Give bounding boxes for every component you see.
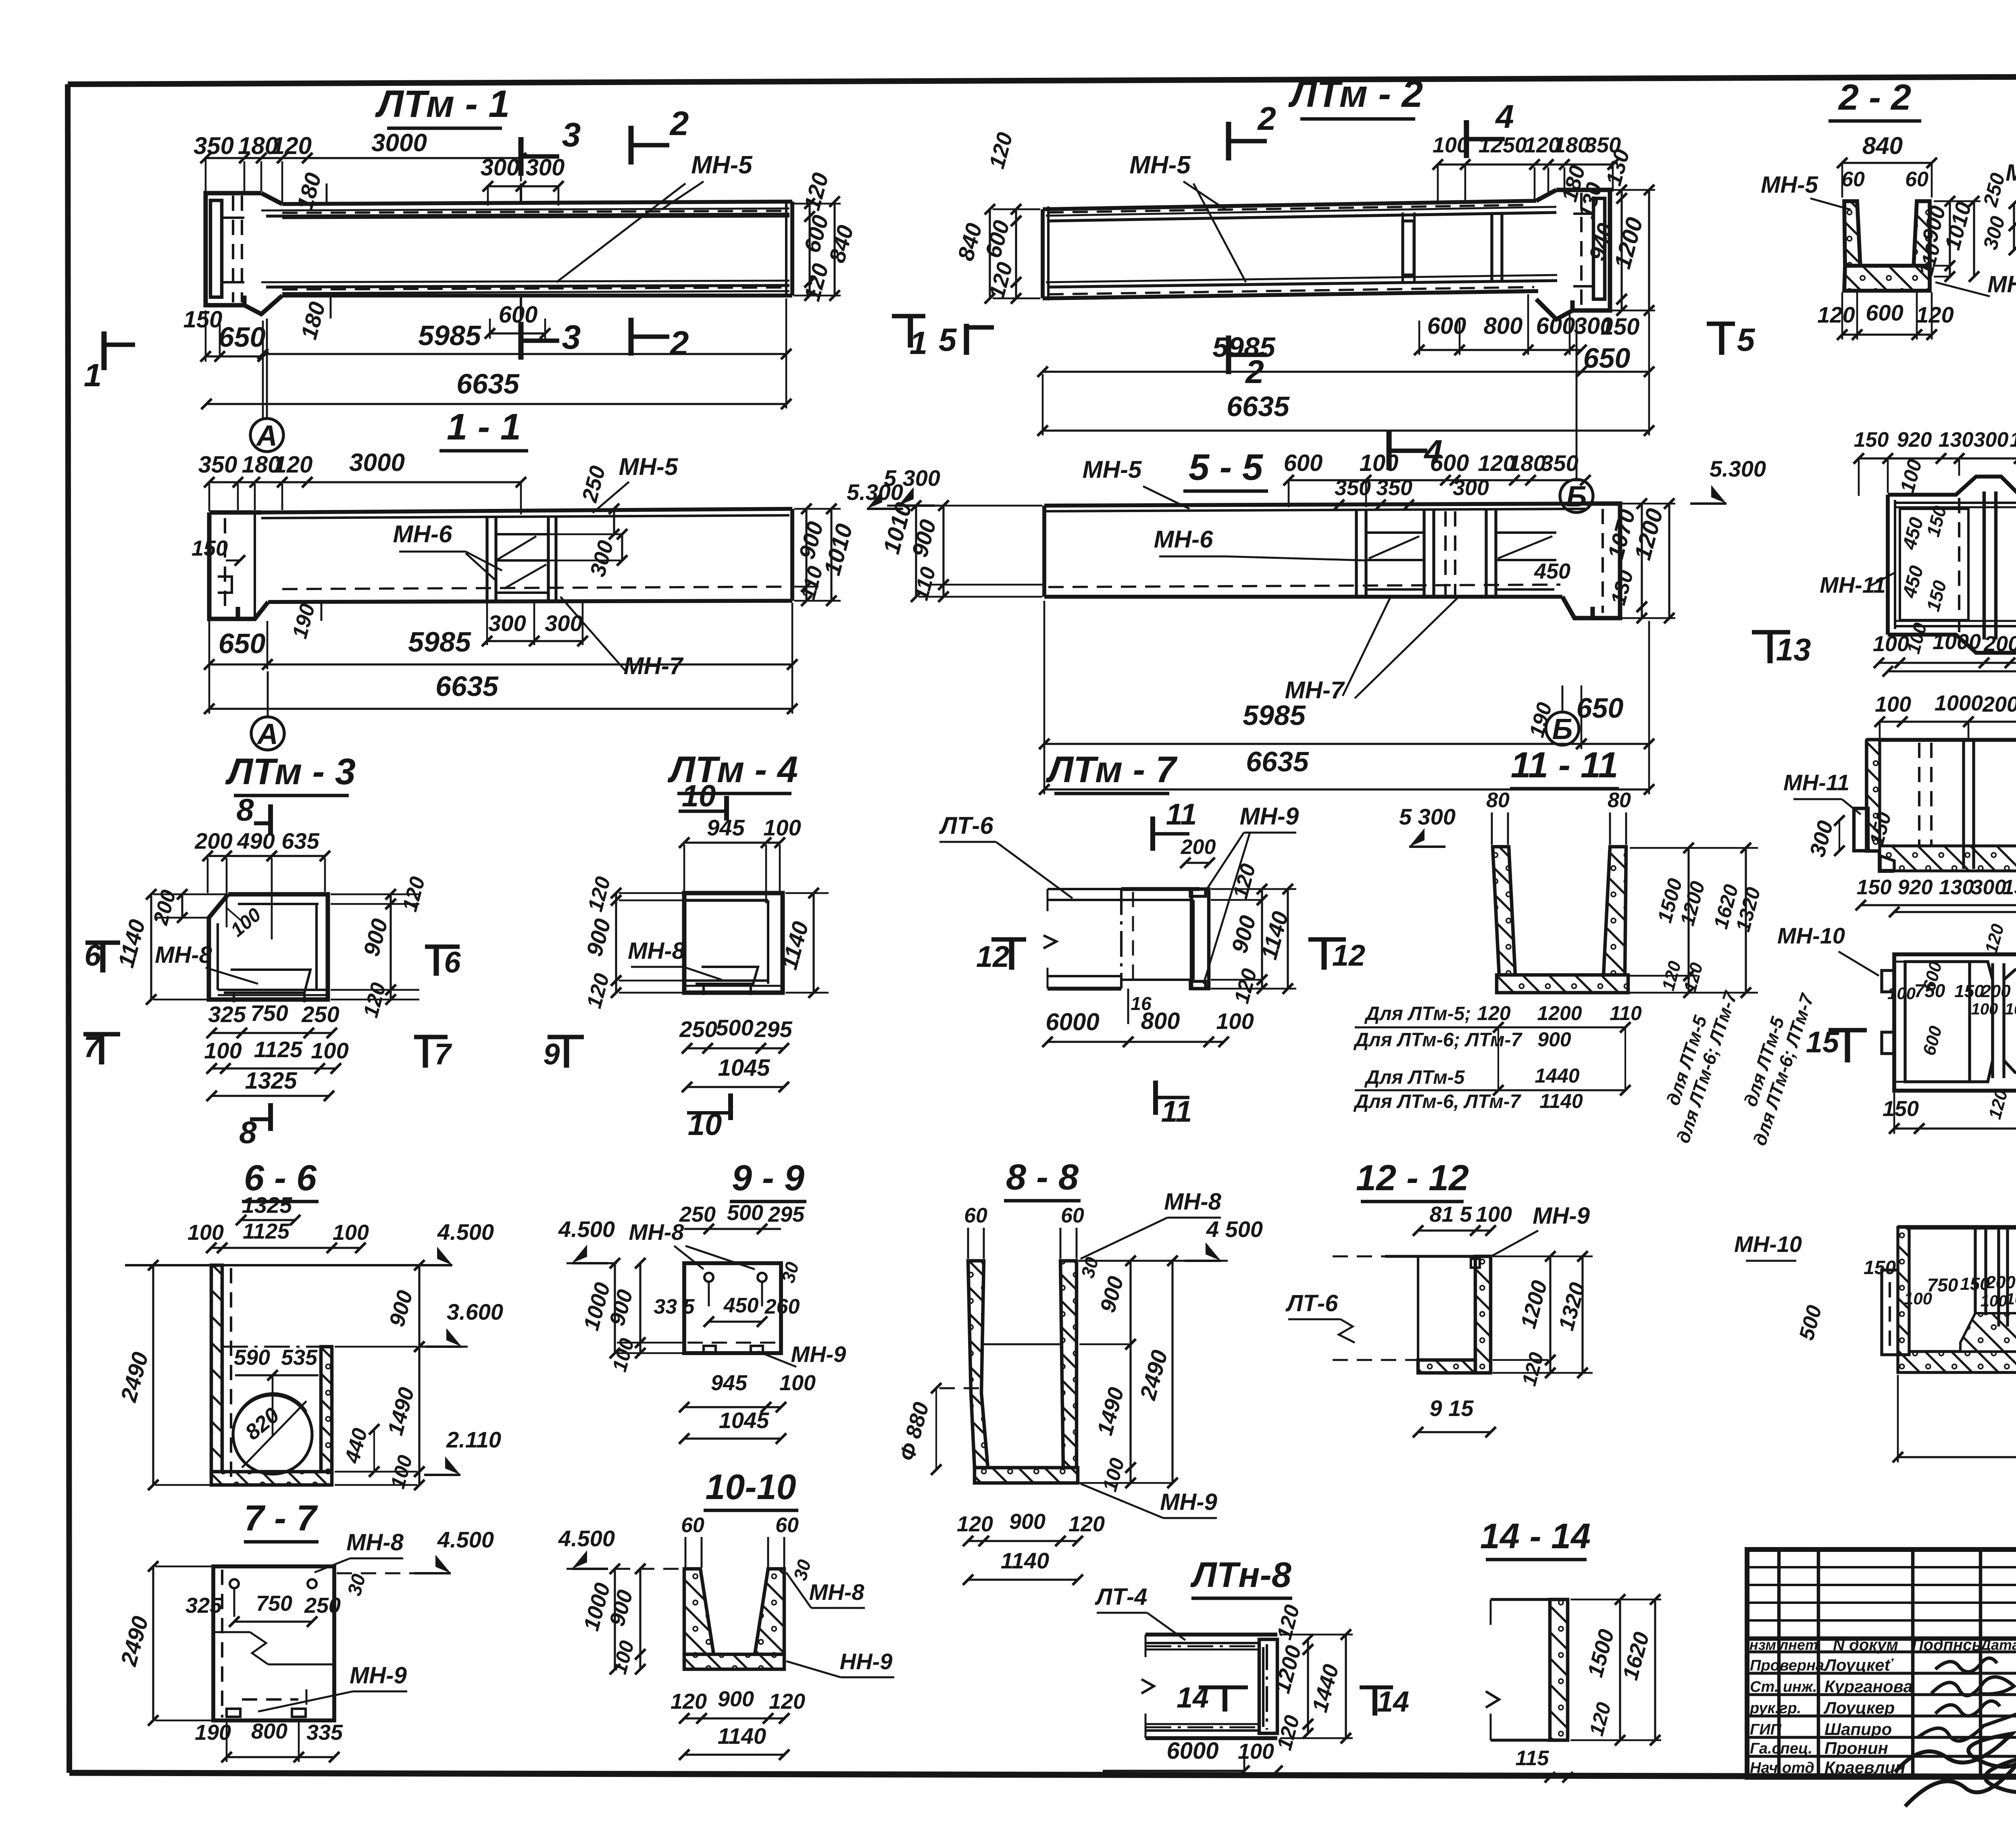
1-1 dim 150 inside (192, 536, 245, 566)
section mark 4 (LTm-2 top) (1466, 98, 1514, 158)
svg-text:300: 300 (1971, 876, 2006, 899)
9-9 body (684, 1263, 781, 1353)
svg-text:А: А (256, 718, 278, 750)
LTm-8 right dims 120 1200 120 1440 (1270, 1602, 1353, 1753)
LTm-1 label 180 rotated (292, 170, 327, 213)
11-11 variants table (1353, 1002, 1642, 1112)
svg-text:100: 100 (1360, 450, 1399, 476)
svg-text:МН-7: МН-7 (1987, 271, 2016, 298)
section 11-11 title (1510, 745, 1619, 789)
svg-text:130: 130 (2003, 876, 2016, 899)
svg-text:2: 2 (1257, 100, 1276, 137)
5-5 dim 190 rotated (1525, 700, 1556, 740)
axis circle B (5-5) (1546, 685, 1579, 746)
14-14 right dims 1500 1620 120 (1570, 1594, 1661, 1745)
6-6 dims 100 1125 100 (187, 1219, 369, 1253)
svg-text:1325: 1325 (242, 1192, 292, 1218)
LTm-5 internal dims (1887, 922, 2016, 1121)
svg-text:200: 200 (1981, 981, 2011, 1001)
svg-text:100: 100 (1433, 133, 1469, 157)
svg-text:350: 350 (1335, 476, 1371, 500)
LTm-2 top dims 100 1250 120 180 350 (1433, 133, 1621, 204)
svg-text:Для ЛТм-6, ЛТм-7: Для ЛТм-6, ЛТм-7 (1353, 1091, 1522, 1112)
svg-text:120: 120 (271, 132, 312, 159)
svg-text:5985: 5985 (1243, 700, 1306, 731)
svg-text:750: 750 (256, 1591, 292, 1616)
LTm-3 cut mark 8 bottom (239, 1103, 271, 1150)
LTm-5 body (plan) (1882, 954, 2016, 1091)
label LT-6 (LTm-7) (939, 812, 1073, 898)
svg-text:Проверна: Проверна (1750, 1657, 1824, 1674)
svg-text:6: 6 (84, 939, 101, 972)
svg-text:600: 600 (1866, 300, 1903, 325)
LTm-1 dim 150 (183, 306, 225, 362)
svg-text:5 300: 5 300 (1399, 804, 1456, 829)
LTm-1 dim 6635 (201, 368, 791, 409)
svg-text:15: 15 (1806, 1025, 1840, 1059)
svg-text:750: 750 (250, 1000, 288, 1026)
svg-text:1125: 1125 (243, 1219, 290, 1243)
svg-text:100: 100 (2006, 1290, 2016, 1308)
5-5 dims 350 350 300 (1334, 476, 1489, 510)
svg-text:2: 2 (669, 324, 689, 362)
svg-text:60: 60 (1061, 1204, 1084, 1227)
svg-text:А: А (256, 420, 277, 452)
svg-text:60: 60 (1905, 168, 1929, 191)
svg-text:295: 295 (768, 1202, 805, 1227)
6-6 body (211, 1265, 332, 1485)
svg-text:5: 5 (939, 322, 957, 358)
LTm-3 right dims 120 900 120 (331, 874, 430, 1020)
svg-text:2: 2 (669, 104, 689, 142)
5-5 level 5.300 left (884, 465, 940, 506)
svg-text:200: 200 (1982, 692, 2016, 716)
10-10 left dims 1000 900 100 (579, 1564, 646, 1676)
svg-text:100: 100 (1216, 1008, 1254, 1034)
svg-text:Ст. инж.: Ст. инж. (1750, 1678, 1817, 1695)
svg-text:МН-8: МН-8 (346, 1529, 404, 1556)
svg-text:ЛТ-6: ЛТ-6 (939, 812, 993, 839)
svg-text:600: 600 (499, 302, 538, 328)
svg-text:МН-7: МН-7 (624, 652, 684, 679)
11-11 rotated captions (1662, 988, 1818, 1148)
svg-text:1045: 1045 (719, 1408, 769, 1433)
title block outer (1747, 1549, 2016, 1777)
svg-text:300: 300 (1974, 428, 2009, 452)
svg-text:3: 3 (562, 318, 581, 356)
section mark 5 right (1707, 322, 1756, 358)
6-6 level 2.110 (424, 1427, 501, 1475)
svg-text:635: 635 (281, 828, 319, 854)
13-13 bottom dims 150 920 130 300 130 (1856, 876, 2016, 910)
svg-text:НН-9: НН-9 (840, 1649, 893, 1674)
LTm-3 bottom dims 325 750 250 (206, 1000, 339, 1038)
svg-text:60: 60 (681, 1514, 704, 1537)
svg-text:ЛТм - 7: ЛТм - 7 (1045, 749, 1178, 790)
svg-text:100: 100 (763, 815, 801, 840)
title block left table (1747, 1549, 2016, 1777)
svg-text:945: 945 (707, 815, 745, 840)
LTm-4 right dim 1140 (776, 888, 829, 998)
10-10 dims 60 60 (681, 1514, 799, 1568)
view LTm-2 title (1288, 73, 1423, 119)
svg-text:МН-8: МН-8 (1164, 1189, 1222, 1215)
LTm-2 right dims 130 940 1200 (1574, 180, 1655, 316)
svg-text:Лоуцкеť: Лоуцкеť (1823, 1656, 1894, 1674)
LTm-3 body (209, 894, 328, 1002)
svg-text:80: 80 (1486, 789, 1510, 812)
5-5 right dims 1070 1200 130 450 (1534, 498, 1675, 623)
svg-text:9 - 9: 9 - 9 (732, 1158, 804, 1198)
LTm-2 bottom dims 600 800 600 300 150 (1414, 294, 1639, 355)
svg-text:4: 4 (1495, 98, 1514, 135)
7-7 left dim 2490 (115, 1561, 212, 1726)
1-1 dim 6635 (204, 669, 798, 714)
svg-text:5: 5 (1737, 322, 1756, 358)
6-6 right dims 900 1490 100 (335, 1260, 425, 1491)
svg-text:100: 100 (1476, 1202, 1512, 1227)
label MN-11 (13-13) (1783, 770, 1861, 814)
LTm-3 top dims 200 490 635 (194, 828, 330, 939)
LTm-1 left end block (206, 193, 282, 314)
svg-text:945: 945 (711, 1371, 748, 1395)
svg-text:7: 7 (83, 1030, 102, 1064)
8-8 bottom dims 120 900 120 (957, 1510, 1105, 1546)
svg-text:Га.спец.: Га.спец. (1750, 1740, 1812, 1757)
svg-text:130: 130 (1939, 428, 1974, 452)
svg-text:2 - 2: 2 - 2 (1838, 77, 1911, 118)
6-6 ground line 4.500 (125, 1219, 494, 1265)
svg-text:Краевлин: Краевлин (1824, 1758, 1906, 1777)
svg-text:6635: 6635 (1227, 391, 1290, 422)
LTm-7 right dims 120 900 120 1140 (1211, 861, 1296, 1006)
10-10 dim 30 (789, 1557, 815, 1583)
3-3 left embed dims 250 300 (1979, 171, 2016, 255)
LTm-3 left dims 200 1140 (113, 887, 226, 1005)
svg-text:2: 2 (1245, 354, 1264, 390)
svg-text:60: 60 (775, 1514, 799, 1537)
svg-text:МН-9: МН-9 (1160, 1489, 1217, 1515)
7-7 body (213, 1566, 334, 1720)
svg-text:130: 130 (2010, 428, 2016, 452)
LTm-6 rotated dims 100 130 (1896, 453, 2016, 495)
title block signatures scribbles (1895, 1658, 2016, 1806)
7-7 level 4.500 (337, 1527, 494, 1573)
8-8 level 4 500 (1079, 1216, 1263, 1261)
svg-text:4.500: 4.500 (437, 1219, 494, 1245)
LTm-1 label 180 bottom rotated (296, 296, 331, 342)
svg-text:450: 450 (723, 1294, 759, 1317)
svg-text:295: 295 (754, 1016, 792, 1042)
svg-text:3000: 3000 (349, 449, 405, 477)
svg-text:200: 200 (1983, 632, 2016, 656)
svg-text:100: 100 (1875, 692, 1911, 716)
section mark 5 left (939, 322, 994, 358)
11-11 dims 80 80 (1486, 789, 1631, 845)
section 6-6 title (242, 1158, 319, 1202)
svg-text:Дата: Дата (1979, 1637, 2016, 1653)
view LTm-1 title (375, 83, 510, 128)
svg-text:650: 650 (1577, 692, 1624, 724)
svg-text:5985: 5985 (408, 626, 471, 658)
svg-text:500: 500 (716, 1015, 753, 1040)
section mark 2 (LTm-2 top) (1229, 100, 1276, 160)
LTm-5 dim 150 (1883, 1097, 1924, 1134)
svg-text:100: 100 (2005, 1000, 2016, 1018)
svg-text:200: 200 (1985, 1272, 2016, 1292)
svg-text:МН-5: МН-5 (619, 453, 679, 480)
view LTm-4 title (667, 749, 798, 793)
8-8 bottom dim 1140 (963, 1548, 1083, 1585)
svg-text:Подпнсь: Подпнсь (1912, 1636, 1982, 1654)
section 12-12 title (1356, 1158, 1469, 1202)
svg-text:11 - 11: 11 - 11 (1511, 745, 1618, 785)
svg-text:МН-11: МН-11 (1820, 572, 1886, 598)
LTm-1 top dimension 350 180 120 (194, 132, 312, 202)
svg-text:100: 100 (204, 1038, 242, 1063)
LTm-4 body (684, 893, 783, 995)
svg-text:МН-5: МН-5 (1083, 456, 1142, 483)
svg-text:1250: 1250 (1479, 133, 1527, 157)
11-11 level 5 300 (1399, 804, 1456, 847)
svg-text:6635: 6635 (435, 671, 499, 702)
svg-text:МН-8: МН-8 (628, 938, 685, 964)
LTm-2 dim 650 (1576, 312, 1654, 435)
svg-text:3.600: 3.600 (447, 1299, 503, 1324)
label MN-5 (1-1) (593, 453, 679, 513)
LTm-5 dim 5985 (1894, 1084, 2016, 1134)
svg-text:ГИП: ГИП (1750, 1721, 1782, 1738)
svg-text:1000: 1000 (1935, 691, 1983, 715)
LTm-1 dim 5985 (258, 298, 791, 408)
svg-text:Б: Б (1552, 713, 1573, 746)
label MN-8 (9-9) (629, 1219, 755, 1269)
1-1 level 5.300 (847, 479, 903, 509)
6-6 dim 1325 (236, 1192, 300, 1225)
svg-text:9 15: 9 15 (1430, 1395, 1474, 1421)
svg-text:920: 920 (1898, 876, 1933, 899)
svg-text:МН-11: МН-11 (1783, 770, 1849, 795)
svg-text:МН-10: МН-10 (1777, 923, 1845, 948)
section 2 - 2 dim 840 (1837, 132, 1937, 198)
svg-text:100: 100 (187, 1220, 224, 1245)
LTm-6 bottom dims 100 1000 200 (1873, 630, 2016, 668)
LTm-4 cut mark 10 top (679, 779, 727, 820)
svg-text:10: 10 (688, 1108, 722, 1142)
svg-text:8: 8 (236, 792, 254, 827)
svg-text:1: 1 (910, 325, 928, 361)
5-5 right end block (1562, 504, 1620, 618)
section mark 1 left (84, 331, 135, 393)
1-1 dim 190 rotated (288, 601, 321, 641)
LTm-4 cut mark 10 bottom (687, 1093, 731, 1142)
label MN-7 (5-5) (1285, 596, 1460, 704)
svg-text:900: 900 (1009, 1510, 1045, 1534)
svg-text:150: 150 (1960, 1274, 1990, 1294)
svg-text:260: 260 (764, 1295, 800, 1318)
svg-text:8: 8 (239, 1114, 257, 1150)
svg-text:6635: 6635 (1246, 746, 1309, 777)
LTm-2 body (plan) (1043, 201, 1557, 300)
svg-text:МН-5: МН-5 (1761, 172, 1818, 198)
svg-text:10: 10 (682, 779, 716, 813)
section 2 - 2 dims 60 60 (1841, 168, 1929, 191)
5-5 level 5.300 right (1690, 456, 1766, 504)
label MN-9 (9-9) (758, 1341, 846, 1367)
LTm-6 dim 5985 (1883, 633, 2016, 677)
svg-text:ЛТм - 2: ЛТм - 2 (1288, 73, 1423, 115)
svg-text:3000: 3000 (371, 129, 427, 157)
label MN-6 (5-5) (1154, 526, 1367, 560)
svg-text:12 - 12: 12 - 12 (1356, 1158, 1469, 1198)
section 2 - 2 bottom dims 120 600 120 (1817, 292, 1954, 340)
10-10 bottom dims 120 900 120 (671, 1687, 805, 1724)
svg-text:1325: 1325 (245, 1068, 297, 1094)
svg-text:120: 120 (274, 452, 313, 478)
svg-text:120: 120 (1916, 302, 1954, 327)
label MN-7 (1-1) (560, 597, 684, 679)
svg-text:МН-8: МН-8 (629, 1219, 685, 1245)
section mark 1 right (892, 316, 927, 361)
label MN-9 (12-12) (1492, 1203, 1590, 1256)
svg-text:535: 535 (281, 1345, 318, 1370)
6-6 dim 440 (340, 1424, 379, 1477)
mark 9 (far right of LTm-4) (543, 1037, 584, 1071)
LTm-8 cut marks 14 (1177, 1682, 1409, 1718)
12-12 bottom dim 915 (1413, 1395, 1496, 1437)
svg-text:100: 100 (311, 1038, 348, 1063)
LTm-4 bottom dim 1045 (682, 1055, 789, 1092)
svg-text:100: 100 (779, 1371, 816, 1395)
svg-text:120: 120 (769, 1689, 805, 1714)
12-12 dims 815 100 (1413, 1202, 1512, 1236)
svg-text:МН-10: МН-10 (1734, 1231, 1802, 1257)
5-5 left dims 110 900 1010 (878, 500, 1042, 603)
svg-text:МН-5: МН-5 (1129, 151, 1191, 179)
title block header texts (1749, 1636, 2016, 1654)
section mark 2 top (631, 104, 689, 165)
svg-text:120: 120 (957, 1512, 993, 1536)
svg-text:650: 650 (219, 628, 266, 659)
svg-text:300: 300 (481, 154, 520, 181)
svg-text:490: 490 (237, 828, 275, 854)
axis circle A (LTm-1) (250, 319, 283, 452)
11-11 right dim lines (1630, 843, 1765, 998)
svg-text:Шапиро: Шапиро (1824, 1720, 1892, 1739)
svg-text:190: 190 (195, 1720, 231, 1745)
label MN-8 (LTm-4) (628, 938, 722, 980)
8-8 right dims 30 900 1490 100 2490 (1077, 1255, 1178, 1494)
label MN-5 (3-3) (2006, 160, 2016, 206)
svg-text:325: 325 (208, 1002, 246, 1027)
svg-text:1 - 1: 1 - 1 (447, 406, 521, 448)
svg-text:6000: 6000 (1045, 1008, 1099, 1035)
svg-text:11: 11 (1166, 798, 1197, 831)
section mark 3 top (521, 116, 581, 176)
LTm-4 left dims 120 900 120 (581, 874, 683, 1011)
1-1 top dims 350 180 120 3000 (198, 449, 526, 514)
label NN-9 (10-10) (786, 1649, 894, 1677)
svg-text:800: 800 (1141, 1008, 1180, 1034)
svg-text:33 5: 33 5 (654, 1295, 695, 1318)
5-5 dim 5985 (1039, 601, 1587, 749)
13-13 dim 150 rotated (1865, 810, 1896, 848)
7-7 bottom dims 190 800 335 (195, 1719, 343, 1762)
label MN-8 (7-7) (314, 1529, 404, 1572)
7-7 dim 30 (344, 1572, 370, 1598)
8-8 dims 60 60 (964, 1204, 1084, 1259)
svg-text:350: 350 (1376, 476, 1412, 500)
LTm-2 left dims 120 600 840 (953, 130, 1040, 304)
svg-text:10-10: 10-10 (705, 1467, 796, 1507)
1-1 left end block (209, 512, 268, 619)
LTm-3 marks 6 7 right (414, 945, 461, 1071)
svg-text:1000: 1000 (1933, 630, 1981, 654)
svg-text:5.300: 5.300 (1710, 456, 1766, 481)
svg-text:5985: 5985 (1212, 331, 1276, 363)
section 7-7 title (244, 1498, 319, 1542)
14-14 bottom dim 115 (1516, 1747, 1573, 1783)
1-1 dim 5985 (262, 603, 798, 670)
svg-text:150: 150 (183, 306, 223, 333)
svg-text:Лоуцкер: Лоуцкер (1823, 1698, 1895, 1717)
label LT-4 (LTm-8) (1095, 1584, 1185, 1640)
9-9 dims 250 500 295 (679, 1201, 805, 1234)
1-1 rotated dim 250 (577, 463, 619, 539)
LTm-2 right end block (1536, 190, 1610, 319)
LTm-4 bottom dims 250 500 295 (679, 1015, 792, 1054)
LTm-7 bottom dims 6000 800 100 (1042, 1008, 1254, 1047)
svg-text:1440: 1440 (1535, 1064, 1579, 1087)
9-9 dims 30 335 450 260 (654, 1260, 803, 1327)
svg-text:650: 650 (219, 321, 266, 353)
svg-text:3: 3 (562, 116, 581, 154)
svg-text:1045: 1045 (718, 1055, 770, 1081)
svg-text:150: 150 (1883, 1097, 1919, 1121)
svg-text:800: 800 (251, 1719, 287, 1743)
svg-text:нзм: нзм (1749, 1637, 1776, 1653)
svg-text:МН-9: МН-9 (791, 1341, 846, 1367)
svg-text:300: 300 (1453, 476, 1489, 500)
LTm-7 dim 200 (1180, 835, 1216, 868)
svg-text:650: 650 (1583, 342, 1631, 374)
LTm-3 bottom dim 1325 (206, 1068, 334, 1101)
svg-text:МН-8: МН-8 (809, 1579, 865, 1605)
label MN-10 (LTm-5) (1777, 923, 1879, 976)
10-10 level 4.500 (left) (558, 1526, 615, 1569)
svg-text:МН-5: МН-5 (691, 151, 753, 179)
7-7 dims 325 750 250 (185, 1591, 341, 1627)
svg-text:6000: 6000 (1166, 1738, 1218, 1764)
svg-text:100: 100 (1904, 1289, 1932, 1308)
svg-text:11: 11 (1161, 1095, 1192, 1128)
svg-text:150: 150 (1954, 981, 1984, 1001)
svg-text:600: 600 (1284, 450, 1323, 476)
svg-text:150: 150 (1857, 876, 1892, 899)
LTm-2 dim 5985 (1037, 331, 1587, 377)
svg-text:150: 150 (1864, 1257, 1896, 1279)
svg-text:100: 100 (1873, 632, 1909, 656)
5-5 body (side view) (1044, 504, 1585, 597)
svg-text:180: 180 (1508, 450, 1545, 476)
14-14 body (wall) (1486, 1599, 1568, 1740)
svg-text:ЛТн-8: ЛТн-8 (1190, 1555, 1291, 1595)
section 8-8 title (1004, 1157, 1081, 1201)
LTm-3 cut mark 8 top (236, 792, 271, 835)
svg-text:120: 120 (671, 1689, 707, 1714)
LTm-7 dim 16 (1128, 989, 1152, 1024)
svg-text:5985: 5985 (418, 320, 481, 351)
